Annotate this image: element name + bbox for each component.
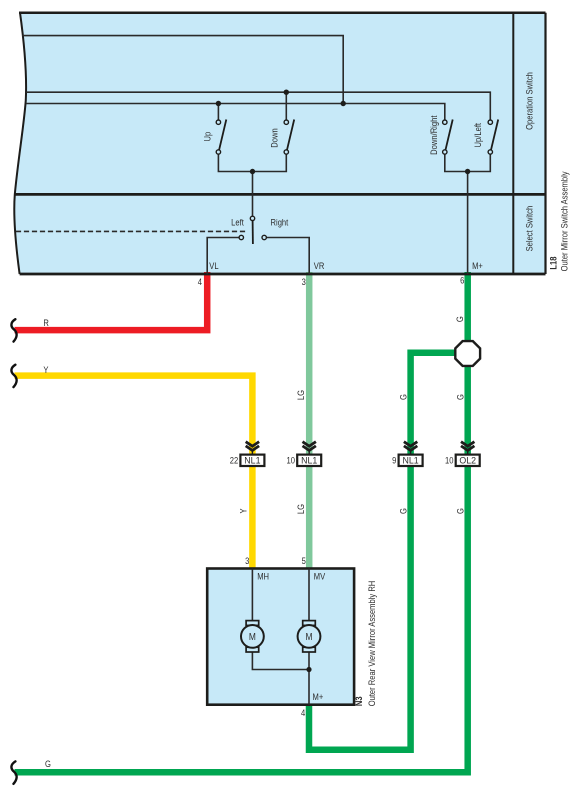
box wavy left edge <box>14 13 26 274</box>
svg-text:9: 9 <box>392 455 396 466</box>
squiggle end of red wire <box>11 319 16 341</box>
svg-text:4: 4 <box>198 276 202 287</box>
wire MV to motor <box>308 569 310 621</box>
node up stub junction <box>216 101 221 106</box>
svg-text:Y: Y <box>43 364 48 375</box>
squiggle end of yellow wire <box>11 365 16 387</box>
svg-text:Down: Down <box>269 128 280 148</box>
box top edge <box>19 11 546 14</box>
svg-text:6: 6 <box>460 275 464 286</box>
svg-text:G: G <box>45 758 51 769</box>
svg-text:M+: M+ <box>313 691 324 702</box>
svg-text:M: M <box>249 631 256 642</box>
svg-text:Operation Switch: Operation Switch <box>524 72 535 130</box>
svg-text:5: 5 <box>302 555 306 566</box>
svg-text:VL: VL <box>209 260 218 271</box>
svg-text:NL1: NL1 <box>301 455 317 465</box>
wire green G below NL1 down and to N3 M+ <box>309 467 411 750</box>
svg-text:NL1: NL1 <box>244 455 260 465</box>
dashed detent line <box>16 230 248 232</box>
box bottom edge <box>20 273 546 276</box>
svg-text:Y: Y <box>238 508 249 513</box>
node rail1-rail3 junction <box>341 101 346 106</box>
svg-text:10: 10 <box>445 455 454 466</box>
wire right pair bottom bus <box>445 154 491 171</box>
svg-text:Up: Up <box>202 132 213 142</box>
svg-text:Left: Left <box>231 216 244 227</box>
switch Up/Left <box>488 120 498 155</box>
wire motor2 bottom to M+ pin <box>308 652 310 705</box>
svg-text:Select Switch: Select Switch <box>524 206 535 252</box>
wire MH to motor <box>251 569 253 621</box>
wire red VL <box>15 272 208 330</box>
node right pair bus junction <box>465 169 470 174</box>
wire light green LG <box>306 272 313 454</box>
svg-text:M: M <box>306 631 313 642</box>
top box border strokes <box>14 13 545 274</box>
svg-text:Right: Right <box>271 216 289 227</box>
wire green G octagon to OL2 <box>464 364 471 454</box>
svg-text:10: 10 <box>287 455 296 466</box>
switch Down/Right <box>443 120 453 155</box>
wire left contact to VL pin <box>207 238 239 275</box>
svg-text:22: 22 <box>230 455 239 466</box>
svg-text:L18: L18 <box>548 256 559 269</box>
svg-text:M+: M+ <box>472 260 483 271</box>
section separator line <box>15 193 546 196</box>
wire green G below OL2 to bottom left <box>15 467 468 772</box>
node down stub junction <box>284 90 289 95</box>
svg-text:OL2: OL2 <box>459 455 476 465</box>
wire up/down bottom bus <box>218 154 286 171</box>
wire top rail <box>22 36 343 104</box>
connector 22 NL1 <box>230 442 265 466</box>
wire rail 3 <box>26 104 445 121</box>
wire green G branch from octagon to NL1 <box>411 353 456 454</box>
svg-text:VR: VR <box>314 260 325 271</box>
wire yellow Y lower <box>249 467 256 569</box>
svg-text:Up/Left: Up/Left <box>472 122 483 147</box>
squiggle end of bottom green wire <box>11 761 16 783</box>
box right edge <box>544 13 546 274</box>
svg-text:MH: MH <box>257 570 269 581</box>
switch select common pole <box>250 216 254 244</box>
internal wires of N3 <box>252 569 309 705</box>
svg-text:G: G <box>398 394 409 400</box>
svg-text:G: G <box>455 394 466 400</box>
svg-text:3: 3 <box>245 555 249 566</box>
svg-text:Outer Rear View Mirror Assembl: Outer Rear View Mirror Assembly RH <box>366 581 377 707</box>
node up/down bus junction <box>250 169 255 174</box>
wire right contact to VR pin <box>266 238 309 275</box>
svg-text:Outer Mirror Switch Assembly: Outer Mirror Switch Assembly <box>558 171 569 272</box>
connector 9 NL1 <box>392 442 422 466</box>
svg-text:G: G <box>398 508 409 514</box>
junction dots <box>216 90 471 175</box>
svg-text:3: 3 <box>302 276 306 287</box>
svg-text:MV: MV <box>314 570 326 581</box>
contact Right <box>262 235 266 239</box>
switch Down <box>284 120 294 155</box>
internal thin wires of switch assembly <box>16 36 490 275</box>
switch Up <box>216 120 226 155</box>
svg-text:NL1: NL1 <box>403 455 419 465</box>
octagon splice <box>455 341 480 366</box>
svg-text:4: 4 <box>301 707 305 718</box>
svg-text:R: R <box>43 317 48 328</box>
wire rail 2 <box>26 92 490 120</box>
wire M+ vertical <box>467 172 469 275</box>
wire down switch stub <box>285 92 287 120</box>
wire green G from M+ to octagon <box>464 272 471 342</box>
svg-text:Down/Right: Down/Right <box>428 115 439 155</box>
motor M vertical (MV) <box>298 621 321 652</box>
connector 10 OL2 <box>445 442 480 466</box>
svg-text:LG: LG <box>295 504 306 514</box>
mirror assembly box N3 <box>207 569 354 705</box>
svg-text:G: G <box>455 508 466 514</box>
motor M horizontal (MH) <box>241 621 264 652</box>
svg-text:N3: N3 <box>353 696 364 706</box>
switch assembly box L18 (blue fill, wavy left edge) <box>14 13 545 274</box>
wire motor1 bottom to bus <box>252 652 309 670</box>
node motors junction <box>306 667 311 672</box>
connector 10 NL1 <box>287 442 322 466</box>
svg-text:G: G <box>454 316 465 322</box>
wire select common <box>252 172 254 217</box>
label column divider <box>512 13 514 274</box>
wire yellow Y <box>15 376 253 454</box>
wire light green LG lower <box>306 467 313 569</box>
wire up switch stub <box>217 104 219 121</box>
svg-text:LG: LG <box>295 390 306 400</box>
contact Left <box>239 235 243 239</box>
